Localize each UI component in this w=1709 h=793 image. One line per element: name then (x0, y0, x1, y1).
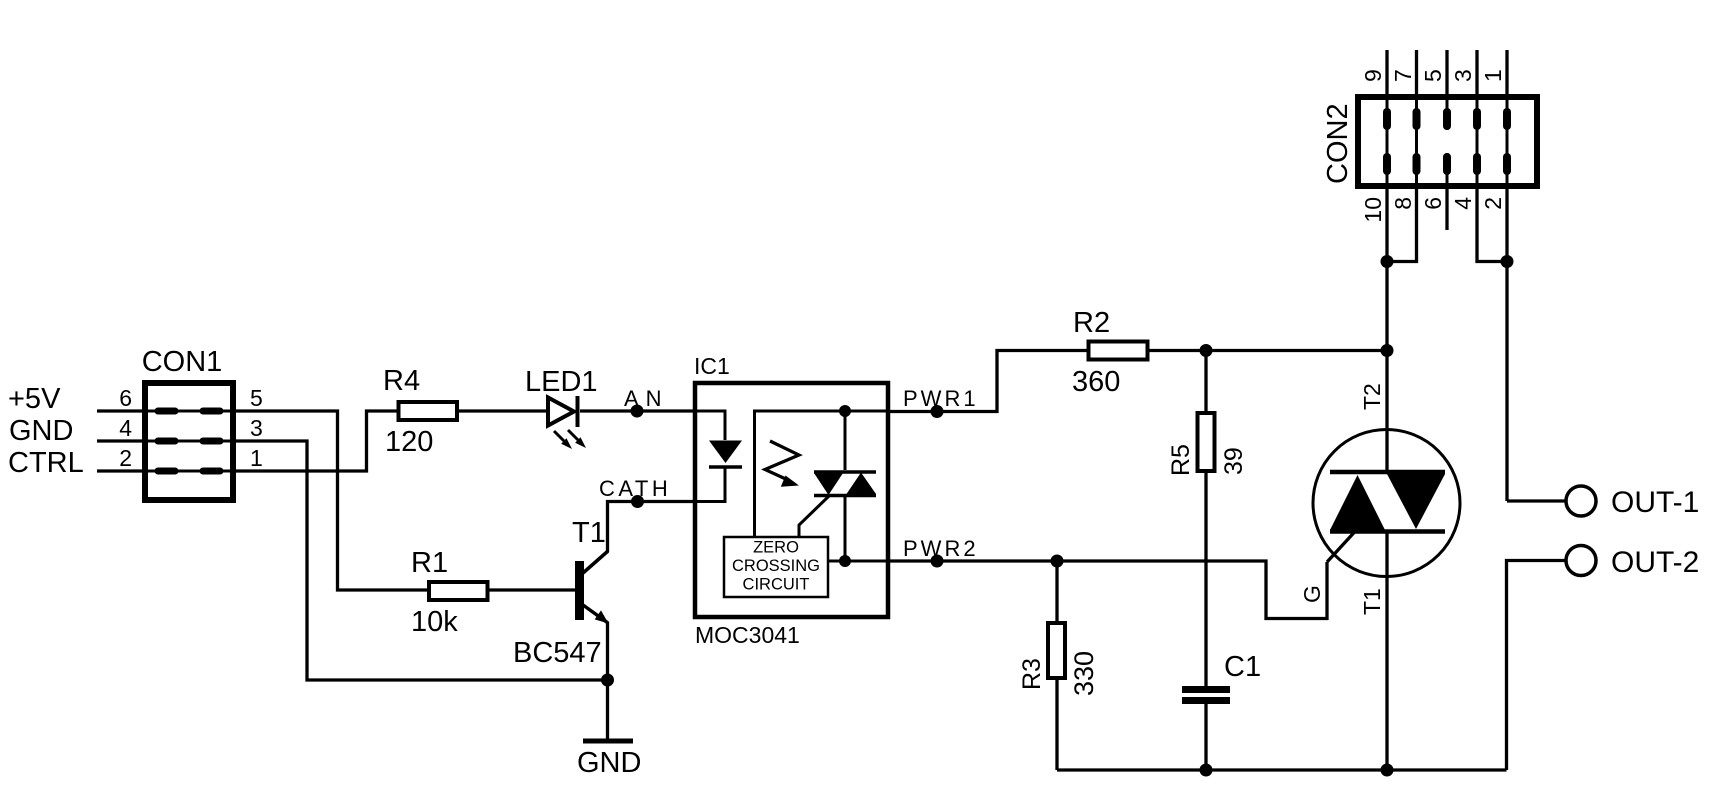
connector CON2 (1322, 97, 1537, 186)
svg-text:R5: R5 (1167, 444, 1195, 476)
wire R4 to LED1 anode (459, 409, 547, 412)
svg-text:5: 5 (250, 385, 263, 411)
resistor R3 (1018, 623, 1099, 696)
connector CON1 (142, 346, 233, 500)
wire R1 to T1 base (489, 588, 576, 591)
svg-text:39: 39 (1220, 447, 1248, 475)
svg-text:R2: R2 (1073, 307, 1110, 339)
wire emitter node to GND symbol (606, 680, 609, 739)
wire +5V stub to CON1 pin 6 (97, 409, 142, 412)
wire CON2 pin6 stub (1445, 188, 1448, 230)
svg-text:10k: 10k (411, 606, 458, 638)
triac body circle (1313, 430, 1460, 577)
IC1 internal triac vertical T1 side (844, 497, 847, 561)
resistor R4 (383, 365, 457, 458)
node CON2 pin10 junction (1381, 255, 1394, 268)
wire CTRL stub to CON1 pin 2 (97, 469, 142, 472)
node CON2 pin2 junction (1501, 255, 1514, 268)
svg-text:OUT-2: OUT-2 (1611, 546, 1699, 579)
wire CON2 top stub pin 1 (1505, 50, 1508, 94)
wire CON1 pin 5 to R1 (net to transistor base) (236, 411, 427, 590)
node C1 bottom junction (1200, 764, 1213, 777)
terminal OUT-2 (1566, 546, 1699, 580)
wire R2 to CON2/triac vertical (1150, 349, 1389, 352)
svg-text:R1: R1 (411, 547, 448, 579)
resistor R1 (411, 547, 488, 638)
IC1 internal triac vertical T2 side (844, 411, 847, 470)
ground GND symbol (577, 741, 641, 779)
svg-text:2: 2 (1480, 197, 1506, 210)
wire CON1 pin 3 to emitter node (236, 441, 607, 680)
svg-text:CATH: CATH (599, 476, 671, 501)
wire CON1 pin 1 to R4 (236, 411, 397, 471)
wire R2 node down to R5 (1204, 351, 1207, 412)
wire C1 bottom plate to bottom rail (1204, 704, 1207, 770)
svg-text:G: G (1299, 585, 1325, 603)
svg-text:330: 330 (1069, 651, 1099, 696)
svg-text:PWR2: PWR2 (903, 536, 979, 561)
svg-text:2: 2 (119, 445, 132, 471)
node AN (631, 405, 644, 418)
IC1 light coupling arrow (765, 441, 799, 487)
resistor R2 (1072, 307, 1148, 398)
node IC1 internal top junction (839, 405, 851, 417)
svg-text:GND: GND (577, 747, 641, 779)
svg-text:1: 1 (1480, 69, 1506, 82)
wire GND stub to CON1 pin 4 (97, 439, 142, 442)
wire CON2 pin8 jog to pin10 (1387, 188, 1417, 262)
svg-text:9: 9 (1360, 69, 1386, 82)
capacitor C1 (1182, 651, 1261, 701)
svg-text:PWR1: PWR1 (903, 386, 979, 411)
svg-text:6: 6 (119, 385, 132, 411)
node IC1 internal bottom junction (839, 555, 851, 567)
IC1 internal LED diode (709, 441, 742, 468)
node CATH (631, 495, 644, 508)
wire to OUT-1 terminal (1507, 499, 1566, 502)
svg-text:+5V: +5V (8, 383, 61, 415)
wire CON2 top stub pin 3 (1475, 50, 1478, 94)
svg-text:4: 4 (1450, 197, 1476, 210)
svg-text:7: 7 (1390, 69, 1416, 82)
svg-text:BC547: BC547 (513, 637, 602, 669)
svg-text:AN: AN (624, 386, 669, 411)
IC1 internal gate wire (799, 496, 829, 537)
IC1 internal triac symbol (814, 472, 876, 496)
node R2 output junction (1200, 344, 1213, 357)
wire PWR2 node down to R3 (1055, 561, 1058, 621)
wire triac T1 down to bottom rail (1385, 532, 1388, 770)
svg-text:120: 120 (385, 426, 433, 458)
node PWR1 (931, 405, 944, 418)
svg-text:6: 6 (1420, 197, 1446, 210)
wire CON2 pin4 jog to pin2 (1477, 188, 1507, 262)
svg-text:CON1: CON1 (142, 346, 223, 378)
svg-text:R3: R3 (1018, 658, 1046, 690)
svg-text:CTRL: CTRL (8, 447, 84, 479)
svg-text:3: 3 (1450, 69, 1476, 82)
svg-text:T2: T2 (1359, 383, 1385, 410)
wire T1 emitter to node (606, 622, 609, 680)
node PWR2 (931, 555, 944, 568)
node emitter junction (601, 674, 614, 687)
svg-text:3: 3 (250, 415, 263, 441)
wire CON2 pin10 down to triac T2 (1385, 188, 1388, 470)
transistor T1 BC547 (513, 517, 609, 669)
svg-text:8: 8 (1390, 197, 1416, 210)
wire OUT-2 terminal to bottom rail (1507, 561, 1566, 771)
IC1 internal wire PWR1 rail (755, 411, 887, 537)
wire CON2 top stub pin 9 (1385, 50, 1388, 94)
IC1 zero crossing circuit block (724, 537, 828, 597)
wire triac gate diagonal (1327, 532, 1355, 563)
svg-text:T1: T1 (1359, 588, 1385, 615)
svg-text:ZERO: ZERO (753, 539, 799, 557)
svg-text:360: 360 (1072, 366, 1120, 398)
svg-text:5: 5 (1420, 69, 1446, 82)
svg-text:R4: R4 (383, 365, 420, 397)
svg-text:CON2: CON2 (1322, 103, 1354, 184)
IC1 internal wire PWR2 rail (828, 560, 886, 563)
wire R3 to bottom rail (1055, 680, 1058, 770)
svg-text:10: 10 (1360, 197, 1386, 223)
terminal OUT-1 (1566, 486, 1699, 519)
svg-text:CROSSING: CROSSING (732, 557, 820, 575)
wire CON2 pin2 down to OUT-1 (1505, 188, 1508, 501)
node R3 junction (1051, 555, 1064, 568)
wire CON2 top stub pin 7 (1415, 50, 1418, 94)
svg-text:1: 1 (250, 445, 263, 471)
wire CON2 top stub pin 5 (1445, 50, 1448, 94)
wire IC1 PWR1 to R2 (890, 351, 1087, 412)
svg-text:MOC3041: MOC3041 (695, 622, 800, 648)
node triac T2 junction (1381, 344, 1394, 357)
svg-text:C1: C1 (1224, 651, 1261, 683)
op-to-coupler IC1 MOC3041 (694, 353, 888, 648)
triac symbol (1330, 472, 1445, 532)
LED LED1 (525, 366, 598, 449)
svg-text:4: 4 (119, 415, 132, 441)
svg-text:CIRCUIT: CIRCUIT (743, 576, 810, 594)
wire IC1 PWR2 to triac gate routing (890, 561, 1327, 619)
wire IC1 CATH pin to T1 collector (608, 502, 694, 553)
IC1 internal LED wiring (697, 411, 725, 502)
wire LED1 cathode to IC1 AN pin (580, 409, 693, 412)
svg-text:IC1: IC1 (694, 353, 730, 379)
wire R5 to C1 top plate (1204, 473, 1207, 686)
resistor R5 (1167, 413, 1248, 476)
svg-text:T1: T1 (572, 517, 606, 549)
node triac T1 bottom junction (1381, 764, 1394, 777)
wire bottom rail (1057, 768, 1507, 771)
svg-text:GND: GND (9, 415, 73, 447)
svg-text:LED1: LED1 (525, 366, 598, 398)
svg-text:OUT-1: OUT-1 (1611, 486, 1699, 519)
